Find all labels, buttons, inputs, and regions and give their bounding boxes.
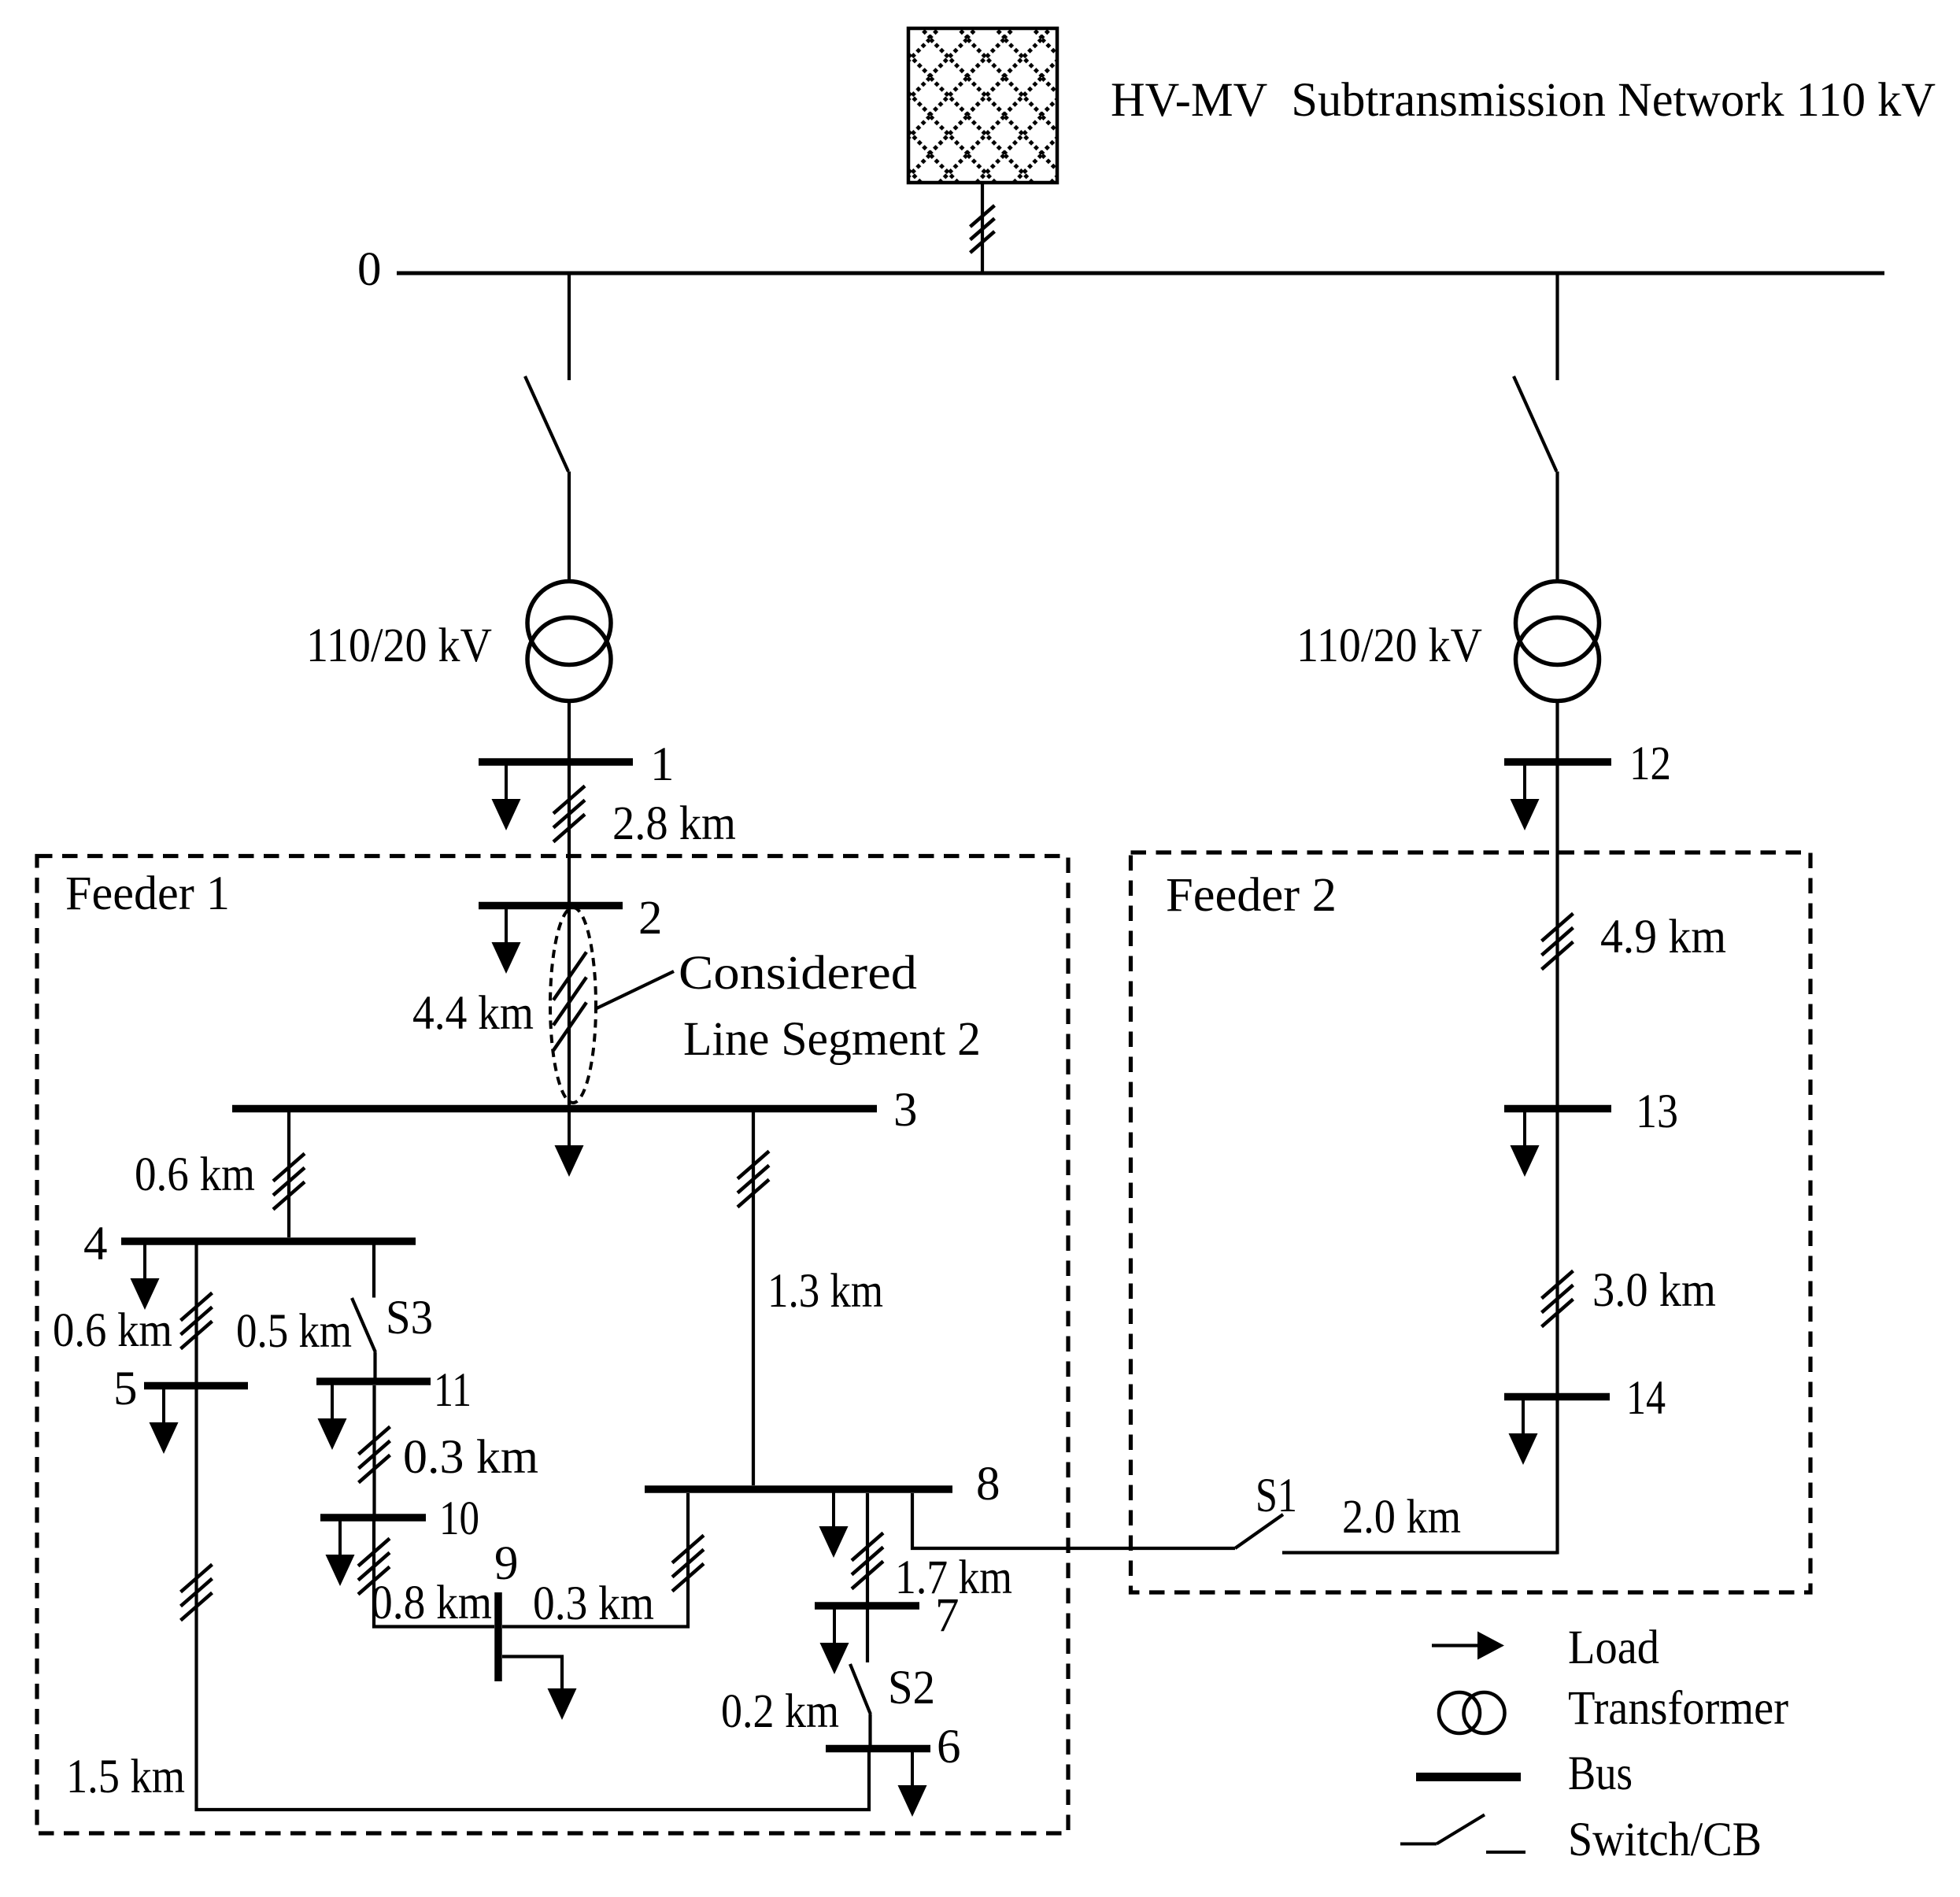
bus 0 — [397, 272, 1884, 275]
svg-text:S2: S2 — [888, 1662, 935, 1714]
line marker 4.9 km — [1542, 914, 1574, 970]
load arrow head bus 9 — [548, 1688, 577, 1720]
switch S3 blade — [352, 1298, 375, 1352]
transformer T2 110/20 kV — [1516, 582, 1599, 701]
svg-text:Feeder 1: Feeder 1 — [65, 867, 230, 920]
wire bus 10 to bus 9 (0.8 km) — [374, 1521, 494, 1627]
switch/CB CB1 blade — [525, 376, 568, 471]
svg-text:3: 3 — [893, 1084, 918, 1137]
line marker 1.3 km — [738, 1152, 769, 1207]
svg-text:0.5 km: 0.5 km — [236, 1305, 352, 1358]
switch S1 blade — [1235, 1514, 1283, 1548]
svg-text:0.2 km: 0.2 km — [721, 1685, 839, 1738]
line marker 4.4 km considered segment — [553, 952, 586, 1051]
bus 11 — [316, 1377, 431, 1385]
transformer T1 110/20 kV — [527, 582, 611, 701]
wire bus 12 to bus 13 (4.9 km) — [1555, 762, 1559, 1105]
wire bus 3 to bus 8 (1.3 km) — [752, 1112, 755, 1485]
line marker on source wire — [971, 205, 995, 253]
load at bus 14 — [1509, 1399, 1538, 1465]
wire bus 0 to CB2 — [1555, 273, 1559, 380]
svg-text:S1: S1 — [1256, 1470, 1297, 1522]
bus 14 — [1504, 1393, 1610, 1401]
wire CB1 to transformer T1 — [568, 471, 571, 581]
wire bus 3 to bus 4 (0.6 km) — [287, 1112, 290, 1237]
svg-text:1: 1 — [650, 738, 675, 791]
svg-text:5: 5 — [113, 1363, 138, 1415]
legend load arrow head — [1477, 1632, 1504, 1660]
wire S2 to bus 6 — [868, 1714, 871, 1748]
wire bus 8 to S1 — [912, 1493, 1235, 1548]
line marker 0.8 km — [358, 1539, 390, 1595]
bus 10 — [320, 1514, 426, 1522]
legend load arrow — [1432, 1644, 1483, 1647]
load at bus 6 — [898, 1751, 927, 1817]
svg-text:Switch/CB: Switch/CB — [1568, 1814, 1762, 1866]
bus 2 — [479, 902, 623, 910]
svg-text:11: 11 — [434, 1364, 472, 1417]
load at bus 4 — [131, 1244, 160, 1310]
svg-text:10: 10 — [439, 1492, 479, 1545]
callout line to ellipse — [597, 971, 674, 1008]
svg-text:9: 9 — [494, 1537, 519, 1590]
considered segment dashed ellipse — [550, 908, 596, 1103]
svg-text:6: 6 — [937, 1721, 961, 1773]
line marker 1.5 km — [181, 1565, 213, 1621]
svg-text:Considered: Considered — [679, 947, 917, 1000]
load at bus 3 — [555, 1111, 584, 1177]
svg-text:HV-MV Subtransmission Network: HV-MV Subtransmission Network 110 kV — [1111, 74, 1936, 127]
svg-text:7: 7 — [935, 1589, 960, 1642]
wire square to bus 0 — [981, 183, 984, 273]
bus 7 — [815, 1602, 919, 1610]
load at bus 1 — [492, 764, 521, 830]
switch S2 blade — [850, 1664, 871, 1714]
svg-text:0.8 km: 0.8 km — [371, 1577, 492, 1629]
svg-text:S3: S3 — [386, 1292, 433, 1344]
svg-text:Transformer: Transformer — [1568, 1682, 1788, 1735]
wire bus 4 to bus 5 and 1.5 km loop to bus 6 — [197, 1244, 870, 1810]
wire bus 4 to S3 (0.5 km) — [372, 1244, 375, 1298]
wire bus 2 to bus 3 (4.4 km) — [568, 909, 571, 1105]
svg-text:14: 14 — [1626, 1372, 1666, 1425]
svg-text:0.6 km: 0.6 km — [53, 1304, 172, 1357]
line marker 0.3 km — [359, 1427, 390, 1483]
bus 9 vertical bar — [494, 1592, 502, 1681]
wire bus 0 to CB1 — [568, 273, 571, 380]
svg-text:0.6 km: 0.6 km — [135, 1148, 255, 1201]
legend bus symbol — [1416, 1773, 1521, 1781]
svg-text:2.0 km: 2.0 km — [1342, 1491, 1461, 1544]
svg-text:2.8 km: 2.8 km — [612, 797, 736, 850]
line marker 0.3 km right — [672, 1536, 704, 1592]
svg-text:8: 8 — [976, 1458, 1000, 1511]
line marker 1.7 km — [852, 1533, 883, 1589]
bus 13 — [1504, 1105, 1611, 1113]
bus 1 — [479, 758, 633, 766]
wire S1 to feeder 2 (2.0 km) — [1282, 1551, 1558, 1554]
load at bus 5 — [150, 1388, 179, 1454]
Feeder 2 dashed boundary — [1131, 852, 1811, 1592]
load at bus 2 — [492, 908, 521, 974]
bus 6 — [826, 1745, 930, 1753]
load at bus 7 — [820, 1608, 849, 1674]
wire S3 to bus 11 — [373, 1352, 376, 1381]
load at bus 8 — [819, 1492, 849, 1558]
wire bus 8 to bus 7 (1.7 km) — [866, 1493, 869, 1662]
wire CB2 to transformer T2 — [1555, 471, 1559, 581]
wire bus 13 to bus 14 (3.0 km) — [1555, 1112, 1559, 1397]
load at bus 13 — [1511, 1111, 1540, 1177]
HV-MV subtransmission network source square — [908, 28, 1057, 183]
svg-text:1.3 km: 1.3 km — [767, 1265, 883, 1318]
wire bus 9 to bus 8 (0.3 km) — [502, 1493, 688, 1627]
svg-text:12: 12 — [1629, 738, 1671, 790]
legend transformer symbol — [1439, 1692, 1505, 1733]
wire bus 1 to bus 2 (2.8 km) — [568, 762, 571, 905]
svg-text:0.3 km: 0.3 km — [403, 1431, 538, 1484]
line marker 3.0 km — [1542, 1271, 1574, 1327]
svg-text:0: 0 — [357, 243, 382, 296]
load at bus 9 wire — [502, 1657, 562, 1690]
wire bus 14 to 2.0 km line — [1555, 1400, 1559, 1555]
svg-text:3.0 km: 3.0 km — [1592, 1264, 1716, 1317]
svg-text:Bus: Bus — [1568, 1747, 1633, 1800]
wire bus 11 to bus 10 (0.3 km) — [372, 1385, 375, 1518]
svg-text:4.4 km: 4.4 km — [412, 987, 534, 1040]
svg-text:110/20 kV: 110/20 kV — [306, 619, 492, 672]
load at bus 12 — [1511, 764, 1540, 830]
line marker 0.6 km — [273, 1154, 305, 1210]
svg-text:Load: Load — [1568, 1622, 1659, 1674]
wire transformer T1 to bus 1 — [568, 701, 571, 762]
bus 5 — [144, 1382, 248, 1390]
line marker 0.6 km left — [181, 1293, 213, 1349]
bus 8 — [645, 1485, 952, 1493]
svg-text:4: 4 — [83, 1218, 108, 1270]
Feeder 1 dashed boundary — [37, 856, 1068, 1834]
svg-text:Feeder 2: Feeder 2 — [1166, 869, 1337, 922]
load at bus 10 — [326, 1520, 355, 1586]
load at bus 11 — [318, 1384, 347, 1450]
svg-text:13: 13 — [1636, 1085, 1678, 1138]
svg-text:Line Segment 2: Line Segment 2 — [683, 1013, 981, 1066]
svg-text:1.5 km: 1.5 km — [66, 1751, 185, 1803]
svg-text:4.9 km: 4.9 km — [1600, 911, 1726, 963]
bus 12 — [1504, 758, 1611, 766]
bus 4 — [121, 1237, 416, 1245]
svg-text:0.3 km: 0.3 km — [533, 1577, 654, 1630]
svg-text:2: 2 — [638, 892, 663, 945]
line marker 2.8 km — [553, 786, 585, 842]
switch/CB CB2 blade — [1514, 376, 1557, 471]
svg-text:110/20 kV: 110/20 kV — [1296, 619, 1482, 672]
bus 3 — [232, 1105, 877, 1113]
legend switch symbol — [1400, 1815, 1525, 1853]
wire transformer T2 to bus 12 — [1555, 701, 1559, 762]
